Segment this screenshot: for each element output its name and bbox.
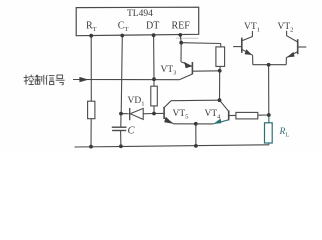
svg-text:VD1: VD1 <box>128 96 145 108</box>
svg-text:RL: RL <box>279 127 290 139</box>
svg-text:TL494: TL494 <box>127 9 153 19</box>
node VT3 base junction <box>218 69 222 73</box>
node REF pin <box>178 33 182 37</box>
node DT pin <box>152 33 156 37</box>
IC U1 TL494 box <box>76 7 199 36</box>
capacitor C plates <box>112 126 127 128</box>
svg-text:DT: DT <box>146 21 159 32</box>
svg-text:C: C <box>128 126 136 137</box>
char 制 <box>35 75 37 77</box>
node diode/C_T junction <box>119 112 123 116</box>
wire VT1 emitter diagonal <box>242 49 253 55</box>
diode VD cathode bar <box>129 108 131 120</box>
wire VT1 collector stub <box>251 31 253 37</box>
wire collector rail VT5-VT4 <box>171 99 219 102</box>
wire VT1 collector diagonal <box>242 37 253 41</box>
wire C_T node to capacitor <box>120 114 122 128</box>
wire VT3 emitter diagonal <box>181 62 192 67</box>
wire REF rail right <box>181 42 221 45</box>
node collector rail junction <box>218 98 222 102</box>
wire REF down to VT3 emitter <box>180 43 182 62</box>
node diode/VT5 base junction <box>152 112 156 116</box>
resistor (REF to VT3 base) <box>216 47 225 67</box>
node rail/emitter drop <box>194 144 198 148</box>
svg-text:RT: RT <box>86 21 97 33</box>
wire capacitor to rail <box>120 131 122 147</box>
label 控制信号 (hand-drawn strokes) <box>24 75 65 85</box>
svg-text:REF: REF <box>172 21 191 32</box>
wire DT pin down <box>153 35 155 79</box>
svg-text:VT4: VT4 <box>205 109 222 121</box>
wire DT node to resistor <box>153 79 155 86</box>
arrowhead VT5 emitter <box>164 117 173 124</box>
node REF junction <box>179 41 183 45</box>
resistor R_L <box>265 123 273 143</box>
wire REF pin down <box>179 35 182 43</box>
wire VT2 emitter down <box>285 57 287 64</box>
char 号 <box>57 75 63 78</box>
transistor Q VT1 bar <box>241 38 243 53</box>
node emitter rail junction <box>194 122 198 126</box>
wire R_L bottom stub <box>268 143 270 145</box>
arrowhead VT1 emitter <box>245 49 253 55</box>
transistor Q VT4 bar <box>228 110 230 120</box>
wire VT3 collector diagonal <box>179 74 192 80</box>
wire emitter rail VT1-VT2 <box>253 64 286 66</box>
wire VT2 base stub <box>298 46 307 48</box>
arrowhead VT4 emitter (teal) <box>214 119 222 124</box>
char 控 <box>25 75 27 85</box>
wire VT2 collector diagonal <box>287 36 298 42</box>
wire VT5 emitter diagonal <box>164 118 173 124</box>
wire diode anode stub <box>121 113 130 115</box>
node R_L top junction <box>267 113 271 117</box>
transistor Q VT2 bar <box>297 39 299 54</box>
node control/DT junction <box>152 77 156 81</box>
wire VT4 base lead <box>229 114 236 116</box>
arrowhead VT3 emitter (pointing into bar) <box>184 62 192 68</box>
transistor Q VT5 bar <box>163 107 165 119</box>
wire VT2 collector stub <box>286 31 288 36</box>
transistor Q VT3 bar <box>191 62 193 74</box>
resistor R (left) <box>88 101 95 119</box>
wire bottom rail <box>75 145 269 147</box>
wire common emitter down <box>268 65 270 115</box>
wire resistor to diode node <box>153 106 155 114</box>
wire R_L top stub (teal) <box>268 115 270 123</box>
wire VT2 emitter diagonal <box>286 52 297 58</box>
arrowhead VT2 emitter <box>287 52 295 58</box>
diode VD triangle <box>130 108 143 119</box>
wire VT3 base lead <box>193 70 220 72</box>
svg-text:VT5: VT5 <box>173 109 189 121</box>
node rail/C <box>119 144 123 148</box>
wire R_T pin down <box>90 36 92 102</box>
node VT1/VT2 emitter junction <box>267 63 271 67</box>
svg-text:VT1: VT1 <box>244 22 260 34</box>
wire VT4 emitter diagonal (teal) <box>213 120 229 124</box>
wire corner down to resistor <box>220 44 222 47</box>
wire emitter node drop <box>195 124 197 146</box>
wire resistor to emitter node <box>258 114 269 116</box>
arrowhead control signal <box>79 77 88 82</box>
wire VT5 base lead <box>154 112 164 114</box>
wire diode to VT5 base node <box>143 113 154 115</box>
teal colored parts <box>213 115 272 145</box>
arrowheads <box>79 49 294 124</box>
ghost scan line below box <box>176 37 199 39</box>
wire VT1 base stub <box>233 46 242 48</box>
resistor (under DT) <box>151 86 158 106</box>
svg-text:VT3: VT3 <box>161 65 177 77</box>
svg-text:CT: CT <box>118 21 129 33</box>
node R_T pin <box>89 34 93 38</box>
char 信 <box>46 75 47 79</box>
wire VT1 emitter down <box>252 55 254 65</box>
wire resistor to base node <box>219 66 222 70</box>
wire VT5 collector diagonal <box>164 101 171 108</box>
node C_T pin <box>120 34 124 38</box>
wire VT4 collector diagonal <box>220 100 229 111</box>
svg-text:VT2: VT2 <box>278 22 294 34</box>
wire base node down to collector rail <box>219 71 221 100</box>
wire control signal line <box>73 79 179 81</box>
node rail/R <box>89 145 93 149</box>
wire R bottom to rail <box>90 119 92 147</box>
wire C_T pin down <box>121 36 122 114</box>
resistor (VT4 base) <box>236 112 258 119</box>
wire emitter rail VT5-VT4 <box>173 123 213 125</box>
